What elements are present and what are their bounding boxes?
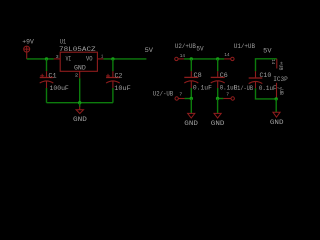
junction node rail bbox=[78, 101, 81, 104]
junction node C8 gnd bbox=[190, 97, 193, 100]
svg-text:C6: C6 bbox=[220, 72, 228, 80]
op IC3P pin 7 stub bbox=[276, 83, 278, 99]
junction node C8 tap bbox=[190, 57, 193, 60]
junction node C1 tap bbox=[45, 57, 48, 60]
svg-text:5V: 5V bbox=[263, 48, 271, 55]
svg-text:10uF: 10uF bbox=[114, 85, 131, 93]
supply +9V symbol bbox=[24, 46, 30, 59]
svg-text:C8: C8 bbox=[194, 72, 202, 80]
svg-text:100uF: 100uF bbox=[50, 85, 69, 93]
op IC3P pin 14 stub bbox=[276, 59, 278, 69]
wire mid 5V rail bbox=[184, 58, 224, 60]
svg-text:0.1uF: 0.1uF bbox=[259, 85, 277, 93]
wire U2 pin7 to C8 bbox=[185, 98, 192, 100]
ground symbol mid-left bbox=[188, 99, 195, 119]
svg-text:3: 3 bbox=[56, 54, 59, 60]
svg-text:C2: C2 bbox=[115, 73, 123, 81]
ground symbol left bbox=[76, 103, 83, 114]
pin circle U1 pin 7 bbox=[231, 97, 234, 100]
svg-text:GND: GND bbox=[184, 120, 198, 128]
junction node C6 gnd bbox=[216, 97, 219, 100]
svg-text:VO: VO bbox=[86, 56, 93, 63]
pin 1 stub bbox=[97, 58, 103, 60]
svg-text:U1/+UB: U1/+UB bbox=[234, 43, 255, 50]
svg-text:78L05ACZ: 78L05ACZ bbox=[59, 46, 96, 53]
pin 14 stub right bbox=[224, 58, 230, 60]
pin circle U2 pin 7 bbox=[175, 97, 178, 100]
pin circle U2 pin 14 bbox=[175, 57, 178, 60]
wire +9V to VI bbox=[27, 58, 54, 60]
svg-text:C10: C10 bbox=[260, 72, 272, 80]
svg-text:U1: U1 bbox=[60, 39, 66, 46]
svg-text:+UB: +UB bbox=[277, 62, 283, 71]
wire C6 to U1 pin7 bbox=[218, 98, 224, 100]
pin circle U1 pin 14 bbox=[231, 57, 234, 60]
pin 3 stub bbox=[54, 58, 60, 60]
svg-text:U2/+UB: U2/+UB bbox=[175, 43, 196, 50]
pin 7 stub right bbox=[223, 98, 231, 100]
wire ground rail left bbox=[47, 102, 113, 104]
ground symbol mid-right bbox=[214, 99, 221, 119]
capacitor C2 bbox=[106, 59, 120, 103]
svg-text:5V: 5V bbox=[196, 46, 203, 53]
pin 2 stub bbox=[79, 71, 81, 78]
svg-text:1: 1 bbox=[101, 54, 103, 60]
junction node C2 tap bbox=[111, 57, 114, 60]
ground symbol right bbox=[273, 99, 280, 117]
capacitor C1 bbox=[40, 59, 54, 103]
svg-text:7: 7 bbox=[179, 92, 182, 98]
pin 7 stub left bbox=[178, 98, 184, 100]
svg-text:-UB: -UB bbox=[278, 86, 284, 95]
svg-text:GND: GND bbox=[73, 116, 87, 124]
svg-text:5V: 5V bbox=[145, 47, 154, 54]
svg-text:2: 2 bbox=[75, 73, 79, 79]
svg-text:GND: GND bbox=[211, 120, 225, 128]
wire right 5V bbox=[256, 59, 277, 71]
svg-text:14: 14 bbox=[180, 53, 185, 59]
svg-text:14: 14 bbox=[224, 52, 229, 58]
capacitor C8 bbox=[184, 59, 198, 99]
wire pin2 to rail bbox=[79, 78, 81, 103]
capacitor C6 bbox=[211, 59, 225, 99]
junction node C6 tap bbox=[216, 57, 219, 60]
svg-text:14: 14 bbox=[270, 59, 276, 64]
junction node IC3P gnd bbox=[275, 97, 278, 100]
svg-text:0.1uF: 0.1uF bbox=[193, 84, 212, 92]
pin 14 stub left bbox=[178, 58, 184, 60]
svg-text:GND: GND bbox=[74, 65, 86, 72]
capacitor C10 bbox=[249, 71, 277, 99]
svg-text:+9V: +9V bbox=[22, 38, 34, 45]
svg-text:GND: GND bbox=[270, 119, 284, 127]
svg-text:VI: VI bbox=[66, 56, 72, 63]
svg-text:7: 7 bbox=[226, 91, 229, 97]
svg-text:U2/-UB: U2/-UB bbox=[153, 90, 174, 97]
svg-text:C1: C1 bbox=[48, 73, 56, 81]
regulator U1 box bbox=[60, 52, 97, 71]
wire VO to 5V bbox=[104, 58, 147, 60]
svg-text:IC3P: IC3P bbox=[273, 76, 288, 83]
svg-text:U1/-UB: U1/-UB bbox=[234, 85, 253, 92]
